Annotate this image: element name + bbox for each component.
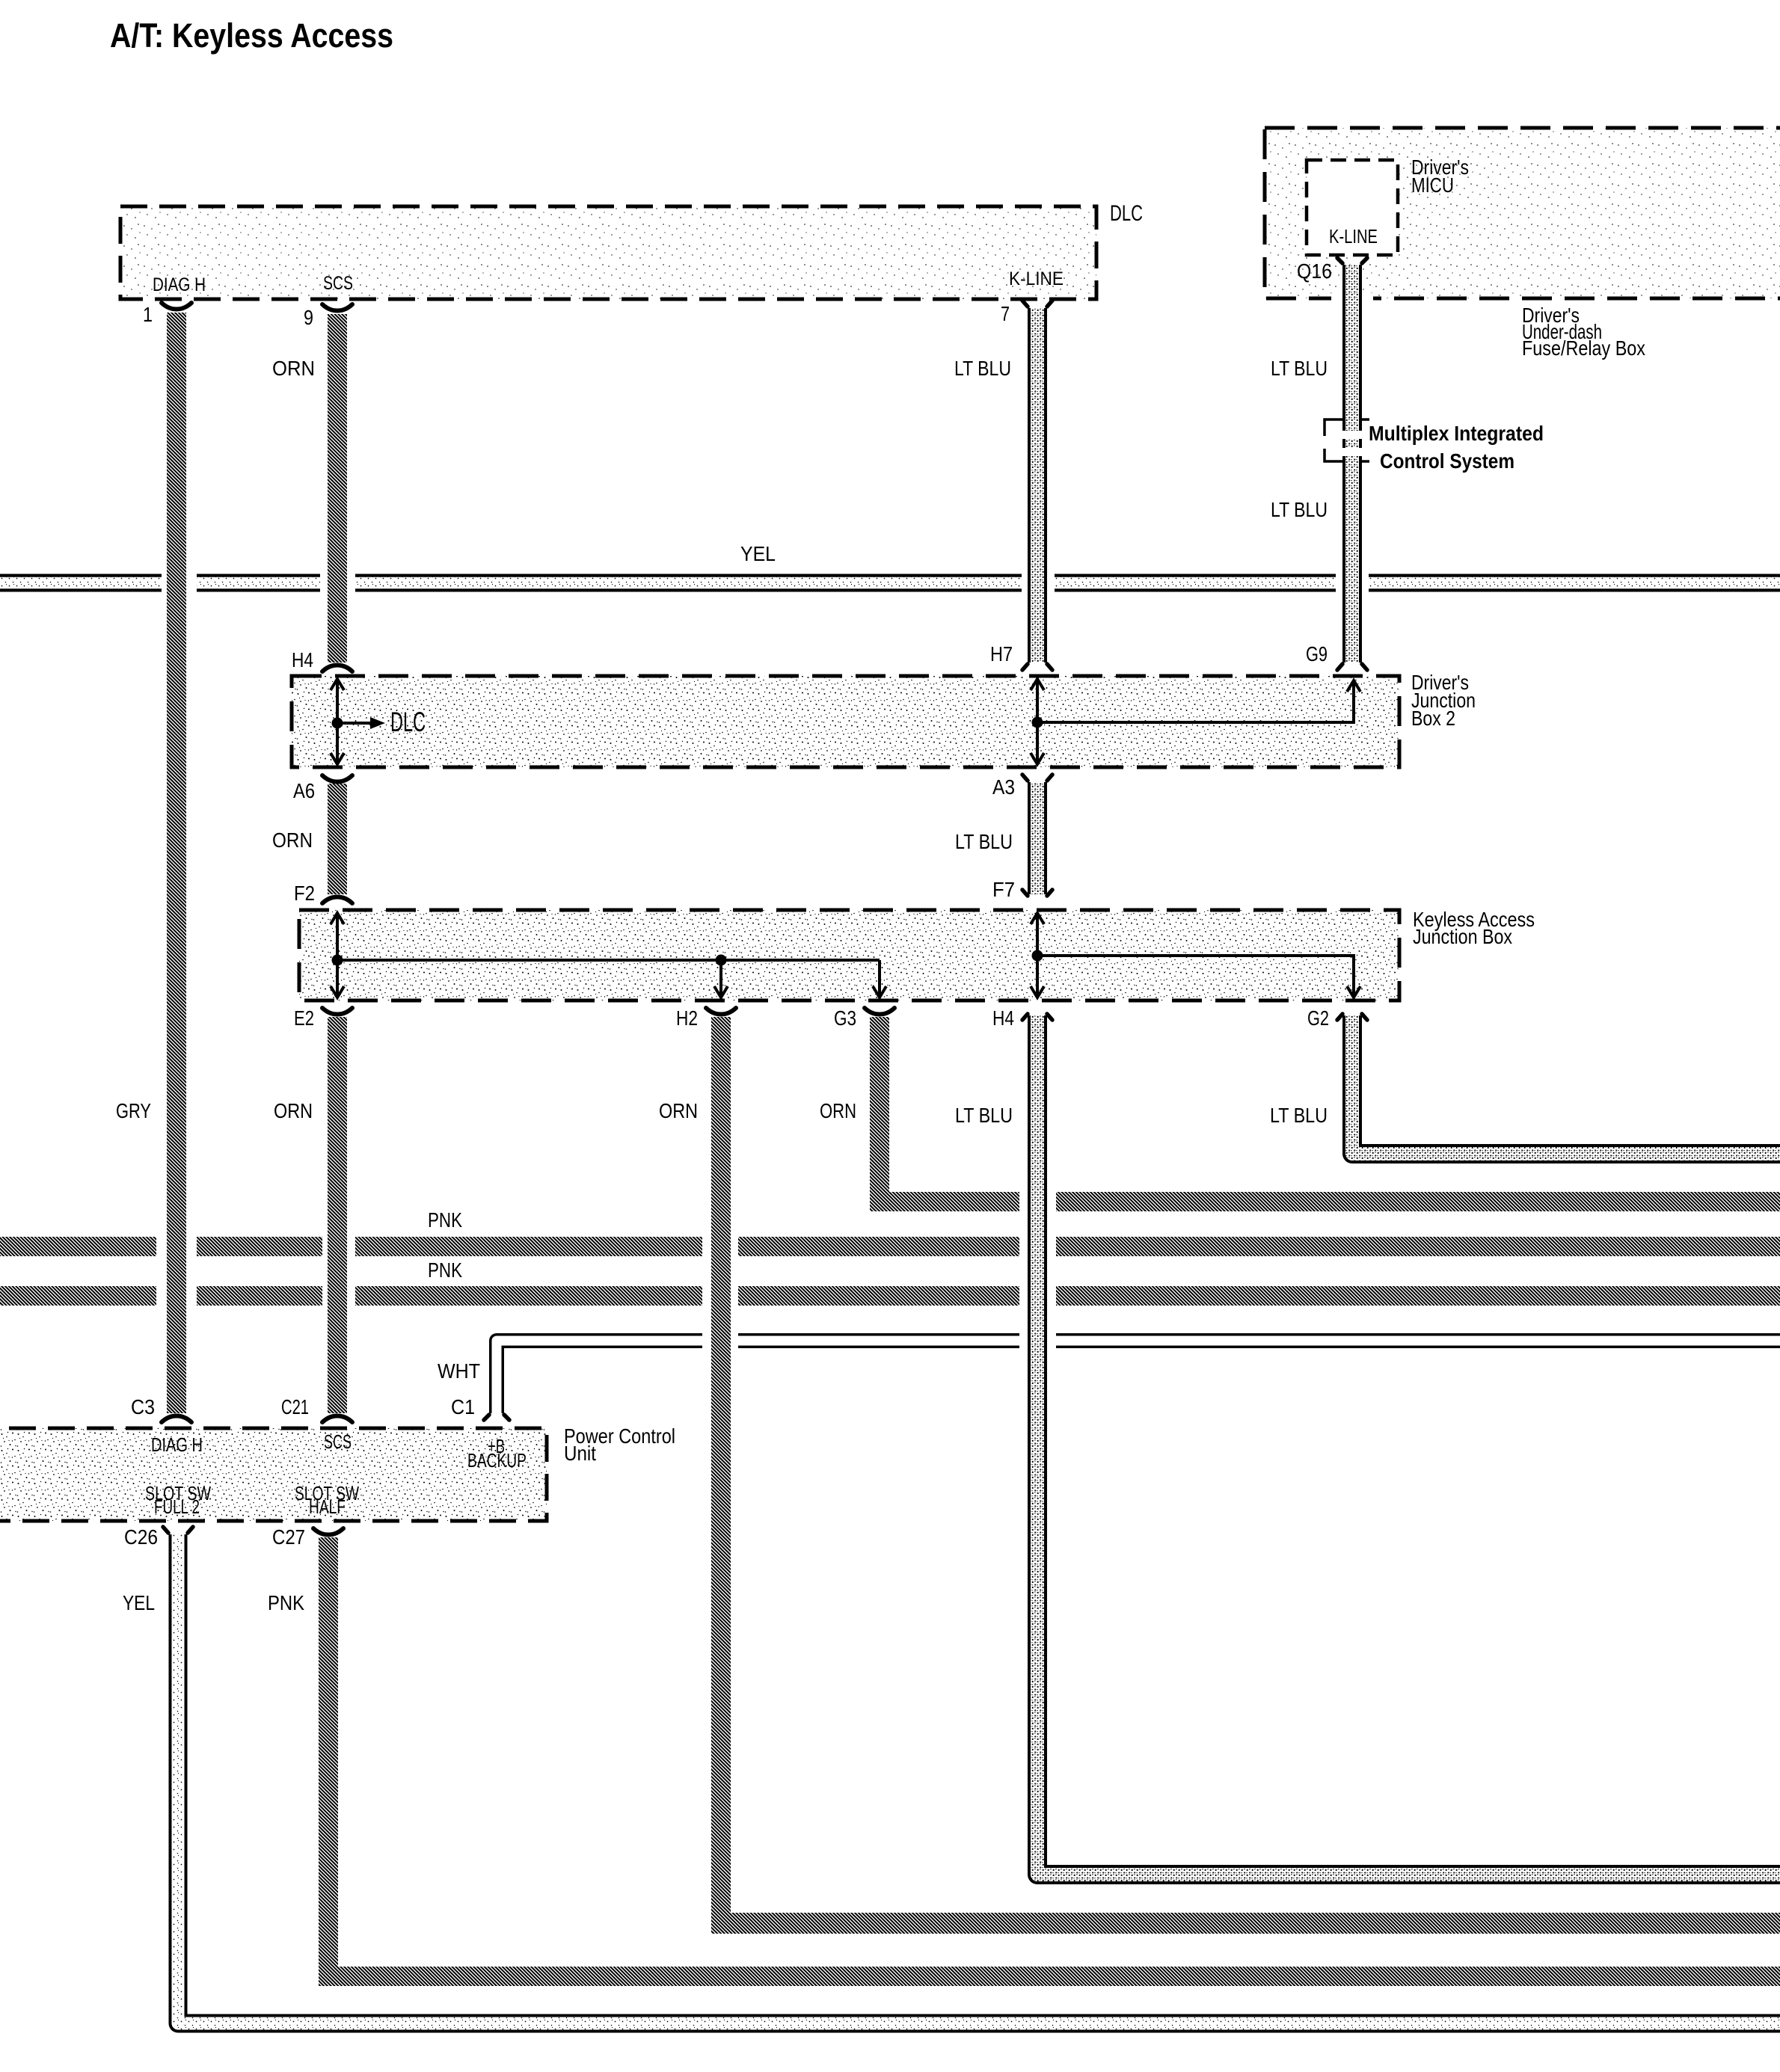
svg-text:K-LINE: K-LINE [1329, 225, 1378, 248]
wire LT BLU Q16 to G9 [1331, 293, 1373, 304]
wire GRY DIAG H pin1 to C3 [167, 313, 186, 1413]
connector H4 JB2 [322, 665, 352, 672]
svg-text:A3: A3 [992, 775, 1015, 799]
svg-text:K-LINE: K-LINE [1009, 268, 1064, 289]
svg-text:DIAG H: DIAG H [153, 274, 206, 295]
svg-text:PNK: PNK [268, 1591, 304, 1614]
svg-text:G9: G9 [1306, 642, 1328, 665]
wire LT BLU G2 down and right [1352, 1015, 1780, 1154]
label Driver's MICU [1411, 156, 1469, 197]
connector H7 flare [1022, 664, 1052, 670]
svg-text:SCS: SCS [324, 1430, 352, 1453]
wire LT BLU DLC pin7 to H7 [1028, 308, 1047, 663]
svg-text:HALF: HALF [309, 1495, 346, 1518]
connector Q16 flare [1337, 258, 1367, 263]
svg-text:LT BLU: LT BLU [1271, 498, 1328, 521]
connector pin1 [162, 303, 191, 310]
wire internal keyless F2-E2 [336, 913, 339, 997]
wire internal JB2 H4-A6 [336, 679, 339, 764]
svg-text:C27: C27 [272, 1525, 305, 1549]
connector pin7 flare [1022, 301, 1052, 307]
pin +B BACKUP [467, 1435, 527, 1472]
svg-text:ORN: ORN [659, 1099, 698, 1122]
connector A3 flare [1022, 775, 1052, 781]
svg-text:F7: F7 [992, 878, 1015, 901]
wire ORN SCS pin9 to H4 [328, 314, 347, 663]
svg-text:PNK: PNK [428, 1258, 462, 1282]
connector C21 [322, 1416, 352, 1423]
node keyless E2 tap [332, 955, 343, 966]
svg-text:A6: A6 [293, 779, 315, 802]
svg-text:BACKUP: BACKUP [467, 1449, 527, 1472]
connector G9 flare [1337, 664, 1367, 670]
svg-text:ORN: ORN [272, 357, 315, 380]
svg-text:LT BLU: LT BLU [955, 830, 1013, 853]
box Power Control Unit [0, 1428, 547, 1521]
svg-text:Box 2: Box 2 [1411, 707, 1455, 730]
svg-text:DLC: DLC [390, 707, 426, 737]
svg-text:1: 1 [143, 303, 153, 326]
svg-text:Unit: Unit [564, 1442, 596, 1465]
wire PNK bar 1 [0, 1237, 1780, 1256]
wire internal keyless F7-H4 [1036, 913, 1039, 997]
wire LT BLU A3 to F7 [1028, 782, 1047, 894]
wire internal JB2 to G9 [1037, 682, 1354, 722]
wire PNK bar 2 [0, 1286, 1780, 1306]
connector C27 [313, 1528, 343, 1535]
svg-text:A/T: Keyless Access: A/T: Keyless Access [110, 16, 393, 55]
svg-text:LT BLU: LT BLU [954, 357, 1011, 380]
wire ORN H2 down and right [711, 1017, 731, 1934]
wire internal JB2 H7-A3 [1036, 679, 1039, 764]
label Keyless Access Junction Box [1413, 908, 1535, 948]
svg-text:C3: C3 [131, 1395, 155, 1418]
box Driver's Junction Box 2 [292, 676, 1399, 767]
pin SLOT SW HALF [295, 1482, 359, 1518]
connector box DLC [120, 206, 1096, 299]
svg-text:ORN: ORN [272, 829, 313, 852]
svg-text:C26: C26 [124, 1525, 158, 1549]
connector F2 [322, 897, 352, 904]
connector F7 flare [1022, 890, 1052, 896]
wire YEL C26 down and right [178, 1534, 1780, 2023]
box Driver's Under-dash Fuse/Relay Box [1265, 128, 1780, 298]
wire LT BLU H4 down and right to edge [1037, 1015, 1780, 1875]
wire internal keyless to G2 [1037, 956, 1354, 996]
svg-text:LT BLU: LT BLU [955, 1104, 1013, 1127]
svg-text:ORN: ORN [820, 1099, 856, 1122]
svg-text:9: 9 [304, 306, 313, 329]
pin SLOT SW FULL 2 [145, 1482, 211, 1518]
label Driver's Under-dash Fuse/Relay Box [1522, 304, 1645, 360]
svg-text:H4: H4 [992, 1006, 1014, 1030]
node JB2 DLC tap [332, 718, 343, 729]
svg-text:YEL: YEL [740, 542, 776, 565]
connector A6 [322, 775, 352, 782]
label Power Control Unit [564, 1424, 675, 1465]
svg-text:LT BLU: LT BLU [1271, 357, 1328, 380]
svg-text:FULL 2: FULL 2 [154, 1495, 200, 1518]
wire ORN A6 to F2 [328, 784, 347, 894]
label Driver's Junction Box 2 [1411, 671, 1476, 730]
svg-text:C21: C21 [281, 1395, 309, 1418]
svg-text:H4: H4 [292, 648, 313, 671]
svg-text:E2: E2 [294, 1006, 314, 1030]
wire ORN G3 down and right [870, 1017, 889, 1211]
svg-text:SCS: SCS [323, 273, 353, 294]
connector pin9 [322, 304, 352, 311]
connector E2 [322, 1008, 352, 1015]
svg-text:ORN: ORN [274, 1099, 313, 1122]
svg-text:Q16: Q16 [1297, 259, 1332, 283]
connector C26 flare [163, 1527, 193, 1533]
svg-text:Fuse/Relay Box: Fuse/Relay Box [1522, 336, 1645, 360]
svg-text:H2: H2 [676, 1006, 698, 1030]
svg-text:7: 7 [1001, 302, 1010, 325]
connector G2 flare [1337, 1014, 1367, 1020]
svg-text:Multiplex Integrated: Multiplex Integrated [1369, 422, 1544, 445]
svg-text:MICU: MICU [1411, 173, 1454, 197]
svg-text:WHT: WHT [438, 1359, 480, 1383]
svg-text:DIAG H: DIAG H [151, 1433, 203, 1456]
wire internal DLC arrow [337, 722, 371, 725]
connector H2 [706, 1008, 736, 1015]
connector G3 [865, 1008, 894, 1015]
marker Multiplex Integrated Control System [1325, 419, 1369, 461]
wire internal keyless to H2 G3 [337, 960, 880, 996]
box Driver's MICU K-LINE [1307, 160, 1398, 255]
connector H4 keyless flare [1022, 1014, 1052, 1020]
wire YEL horizontal (SLOT SW FULL 2 net) [0, 574, 1780, 592]
svg-text:G2: G2 [1307, 1006, 1329, 1030]
svg-text:Junction Box: Junction Box [1413, 925, 1512, 948]
svg-text:PNK: PNK [428, 1208, 462, 1232]
svg-text:F2: F2 [294, 882, 315, 905]
svg-text:LT BLU: LT BLU [1270, 1104, 1328, 1127]
wire PNK C27 down and right [319, 1537, 338, 1986]
box Keyless Access Junction Box [299, 910, 1399, 1000]
node keyless F7 tap [1032, 950, 1043, 962]
svg-text:YEL: YEL [123, 1591, 155, 1614]
svg-text:G3: G3 [834, 1006, 856, 1030]
svg-text:H7: H7 [990, 642, 1013, 665]
wire WHT C1 up and right [497, 1341, 702, 1413]
wire ORN E2 to C21 [328, 1017, 347, 1413]
svg-text:GRY: GRY [116, 1099, 151, 1122]
svg-text:C1: C1 [451, 1395, 475, 1418]
svg-text:DLC: DLC [1110, 201, 1143, 226]
node JB2 K-LINE tap [1032, 717, 1043, 728]
svg-text:Control System: Control System [1380, 449, 1514, 473]
node keyless H2 tap [716, 955, 727, 966]
connector C1 flare [484, 1415, 509, 1420]
connector C3 [162, 1416, 191, 1423]
